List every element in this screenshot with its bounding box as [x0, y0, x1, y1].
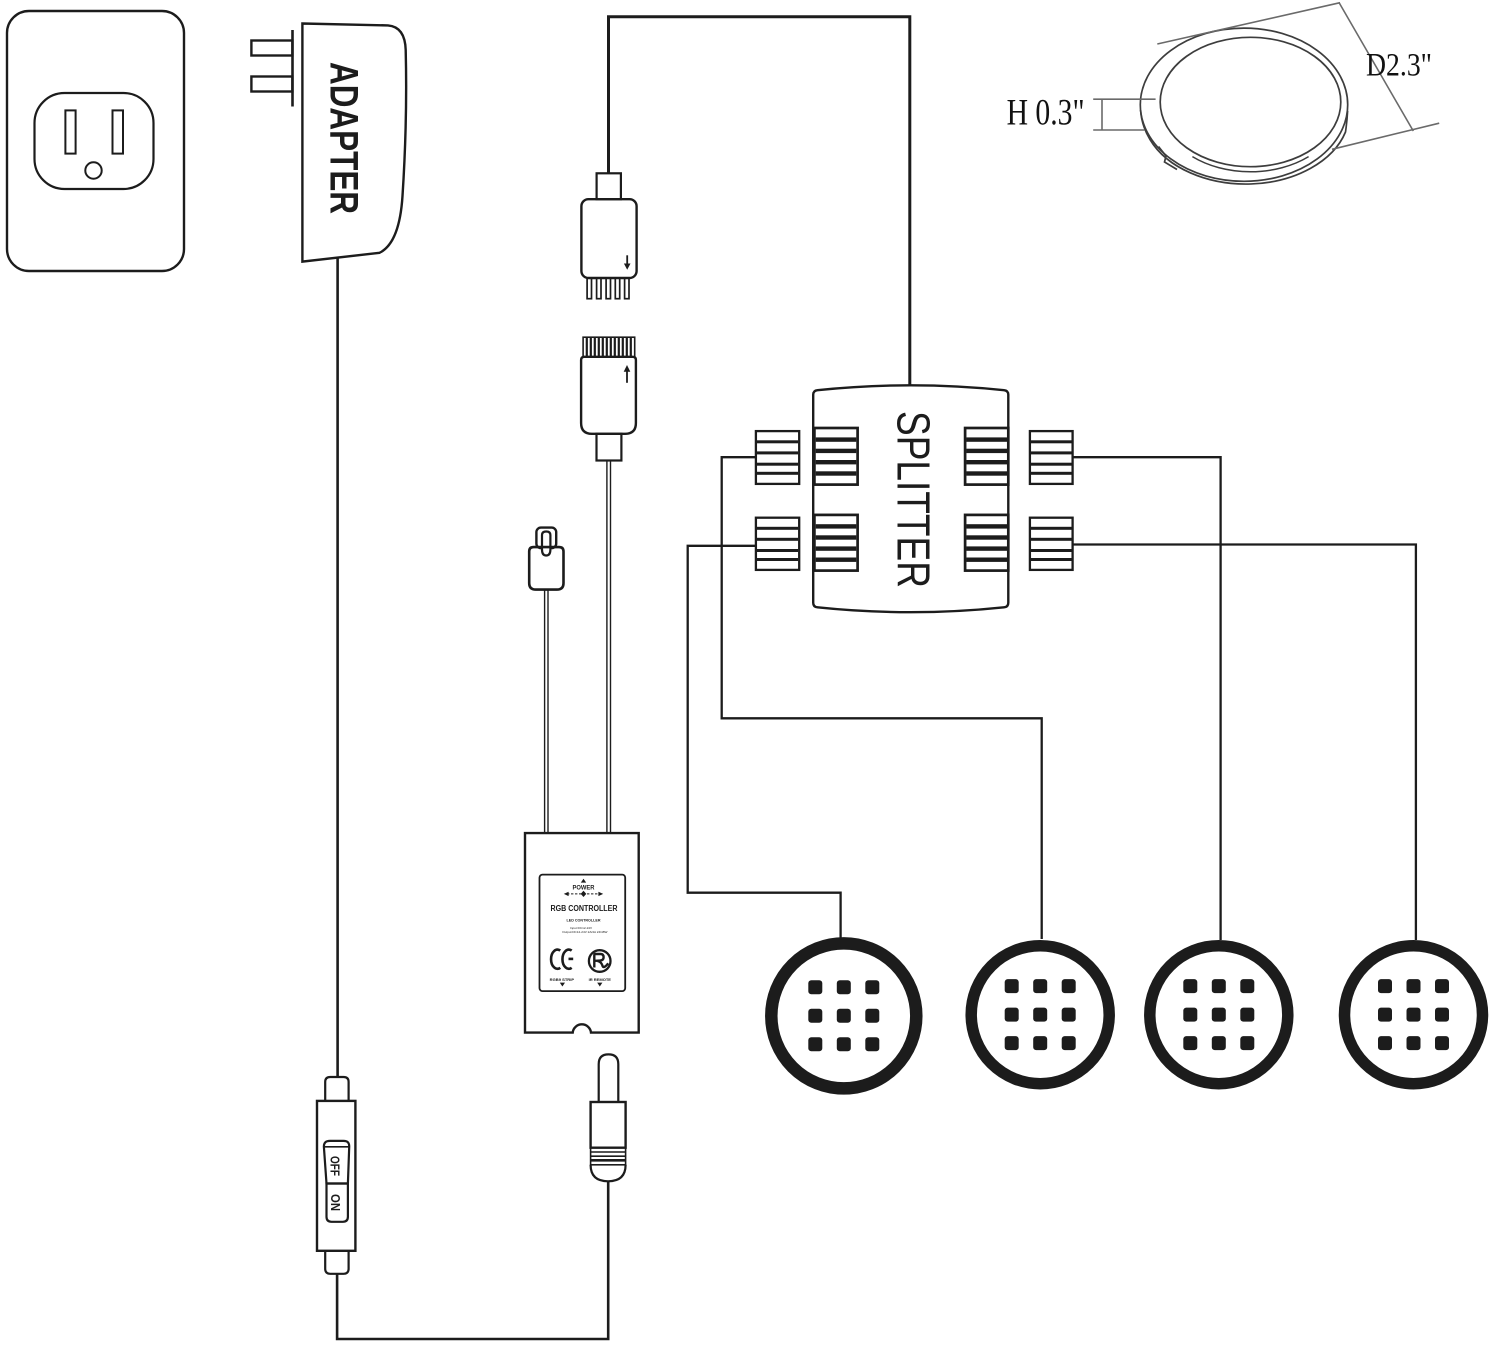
splitter body — [813, 385, 1008, 612]
IR receiver head — [536, 528, 556, 549]
wall outlet face — [35, 93, 154, 189]
svg-text:ON: ON — [328, 1194, 342, 1211]
svg-text:Output:DC12-24V 2A/4A 24/48W: Output:DC12-24V 2A/4A 24/48W — [562, 930, 607, 934]
splitter inner port right top — [965, 428, 1008, 485]
switch bottom cap — [325, 1251, 348, 1274]
splitter plug left bottom — [756, 518, 799, 570]
adapter prong plate — [291, 30, 294, 107]
RGB controller box — [525, 833, 639, 1033]
splitter inner port right bottom — [965, 515, 1008, 571]
controller label plate — [540, 875, 626, 992]
svg-text:H 0.3": H 0.3" — [1007, 92, 1085, 133]
controller CE mark — [551, 950, 573, 969]
switch rocker OFF half — [324, 1141, 349, 1184]
svg-text:IR REMOTE: IR REMOTE — [589, 978, 612, 982]
puck light 4 — [1345, 946, 1483, 1084]
female connector body — [581, 357, 636, 434]
switch top cap — [325, 1077, 348, 1101]
svg-text:POWER: POWER — [573, 885, 595, 892]
svg-text:D2.3": D2.3" — [1366, 48, 1432, 84]
outlet ground hole — [85, 162, 101, 178]
main wire adapter-out to splitter — [609, 17, 910, 386]
IR receiver lens — [542, 532, 550, 556]
controller dashed arrow line — [564, 891, 603, 897]
controller R certification logo — [589, 950, 611, 972]
IR receiver body — [529, 547, 563, 590]
female connector neck — [597, 434, 622, 461]
puck light 3 — [1150, 946, 1288, 1084]
controller RGB STRIP arrow — [560, 983, 565, 987]
svg-text:SPLITTER: SPLITTER — [888, 411, 940, 588]
switch body — [317, 1101, 355, 1251]
wire female connector to controller (double) — [607, 461, 611, 834]
adapter prong top — [251, 41, 292, 56]
puck dimension drawing outer rim — [1141, 110, 1348, 184]
wire splitter to puck 3 — [1073, 457, 1221, 940]
wire splitter to puck 1 — [688, 546, 841, 938]
wire IR receiver to controller (double) — [545, 590, 548, 833]
male connector arrow (down) — [624, 255, 631, 269]
female connector comb — [583, 337, 635, 357]
puck light 1 — [771, 943, 916, 1088]
switch rocker ON half — [327, 1184, 348, 1222]
RCA plug body — [591, 1102, 626, 1148]
female connector arrow (up) — [624, 365, 631, 383]
RCA plug ridges — [591, 1148, 626, 1165]
wire splitter to puck 2 — [722, 457, 1042, 939]
outlet slot left — [65, 110, 75, 153]
splitter plug right top — [1030, 431, 1073, 484]
adapter body — [302, 24, 406, 262]
svg-text:OFF: OFF — [328, 1156, 342, 1176]
puck dimension drawing notch — [1159, 147, 1178, 170]
splitter plug left top — [756, 431, 799, 484]
dimension H extension lines — [1093, 99, 1155, 130]
splitter inner port left top — [814, 428, 857, 485]
dimension D extension lines — [1157, 3, 1439, 150]
svg-text:LED CONTROLLER: LED CONTROLLER — [567, 917, 601, 922]
svg-text:RGB9 STRIP: RGB9 STRIP — [550, 978, 575, 982]
wall outlet plate — [7, 11, 184, 271]
controller power triangle — [581, 879, 586, 883]
outlet slot right — [113, 110, 124, 153]
wire splitter to puck 4 — [1073, 545, 1416, 941]
puck dimension drawing lens — [1160, 37, 1341, 166]
male connector pins — [587, 278, 629, 299]
male connector neck — [597, 173, 621, 199]
splitter inner port left bottom — [814, 515, 857, 571]
puck light 2 — [971, 946, 1109, 1084]
svg-text:ADAPTER: ADAPTER — [322, 62, 366, 214]
adapter prong bottom — [251, 77, 292, 92]
RCA plug tip — [599, 1054, 619, 1102]
controller IR REMOTE arrow — [597, 983, 602, 987]
wire switch to bottom run — [337, 1182, 608, 1340]
wire adapter to switch — [336, 259, 339, 1078]
svg-text:RGB CONTROLLER: RGB CONTROLLER — [551, 904, 618, 913]
splitter plug right bottom — [1030, 518, 1073, 570]
male connector body — [581, 199, 636, 278]
RCA plug base dome — [591, 1165, 626, 1182]
